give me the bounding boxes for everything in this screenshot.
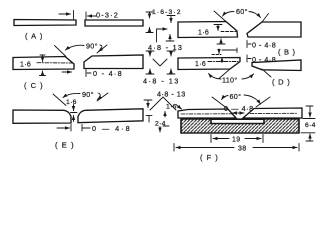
svg-text:60°: 60° xyxy=(236,7,248,16)
backing thickness dim 6.4 xyxy=(301,106,315,141)
joint C root dim xyxy=(40,55,46,76)
svg-text:90°: 90° xyxy=(82,90,94,99)
joint B right plate xyxy=(247,22,301,37)
joint E groove extension lines xyxy=(53,94,66,106)
svg-text:( D ): ( D ) xyxy=(272,78,291,87)
joint F left plate centerline xyxy=(181,113,233,115)
joint E gap ticks xyxy=(71,125,90,132)
joint D right plate xyxy=(252,60,301,71)
backing length dim 38 xyxy=(174,144,299,152)
leader for 1.6 F xyxy=(176,105,182,110)
svg-text:0 - 4·8: 0 - 4·8 xyxy=(252,41,276,50)
svg-text:1·6: 1·6 xyxy=(195,61,206,68)
joint A gap dimension 0-3.2 xyxy=(86,12,96,20)
joint E gap arrow left xyxy=(57,127,70,129)
joint C right plate xyxy=(84,55,143,69)
joint D root dim xyxy=(212,48,237,63)
leader 4.8-13 to B plate xyxy=(157,16,176,43)
svg-text:1·6: 1·6 xyxy=(166,104,177,111)
joint F backing strip xyxy=(181,119,299,133)
svg-text:( F ): ( F ) xyxy=(200,153,219,162)
joint B groove extension lines xyxy=(214,11,226,22)
svg-text:0 — 4·8: 0 — 4·8 xyxy=(224,104,254,113)
svg-text:( E ): ( E ) xyxy=(55,141,75,150)
svg-text:1·6-3·2: 1·6-3·2 xyxy=(152,9,182,16)
svg-text:0-3·2: 0-3·2 xyxy=(96,11,119,20)
dim 2.4 xyxy=(160,112,169,133)
svg-text:0 - 4·8: 0 - 4·8 xyxy=(93,69,123,78)
joint D gap dim 0-4.8 xyxy=(247,55,251,62)
svg-text:0 — 4·8: 0 — 4·8 xyxy=(92,124,132,133)
svg-text:0 - 4·8: 0 - 4·8 xyxy=(252,55,276,64)
joint C gap dim 0-4.8 xyxy=(86,70,91,77)
thickness dims E and F with caret leader xyxy=(144,97,176,122)
svg-text:4·8 - 13: 4·8 - 13 xyxy=(157,90,186,99)
joint F right plate xyxy=(243,108,302,118)
joint F right plate centerline xyxy=(250,112,297,114)
joint E right plate xyxy=(78,109,143,123)
joint F groove extension lines xyxy=(212,97,228,109)
svg-text:( B ): ( B ) xyxy=(278,48,296,57)
joint B root face dim 1.6 xyxy=(214,25,225,45)
svg-text:38: 38 xyxy=(238,146,246,153)
joint C gap arrow left xyxy=(62,71,72,73)
joint E root dim xyxy=(71,105,78,122)
joint F gap dim 0-4.8 xyxy=(233,112,245,114)
joint C centerline dashed xyxy=(37,62,72,64)
svg-text:( A ): ( A ) xyxy=(25,32,43,41)
svg-text:( C ): ( C ) xyxy=(24,81,44,90)
svg-text:4·8 - 13: 4·8 - 13 xyxy=(143,77,180,86)
svg-text:90°: 90° xyxy=(86,42,98,51)
joint D centerline dashed xyxy=(208,61,238,63)
svg-text:6·4: 6·4 xyxy=(305,122,316,129)
joint E left plate xyxy=(13,110,71,123)
svg-text:110°: 110° xyxy=(222,76,238,85)
svg-text:1·6: 1·6 xyxy=(198,30,209,37)
thickness dimension 1.6-3.2 xyxy=(146,12,153,33)
joint A arrow to left plate edge xyxy=(59,11,74,20)
joint B gap dim 0-4.8 xyxy=(247,41,251,48)
svg-text:2·4: 2·4 xyxy=(155,121,166,128)
svg-text:1·6: 1·6 xyxy=(66,99,77,106)
svg-text:19: 19 xyxy=(232,137,240,144)
joint F left plate xyxy=(178,109,236,118)
joint B root face dashed line xyxy=(221,31,236,33)
joint B left plate xyxy=(178,22,238,38)
svg-text:1·6: 1·6 xyxy=(20,62,31,69)
joint D groove extension lines xyxy=(219,69,230,79)
joint C left plate xyxy=(13,57,74,70)
backing groove width dim 19 xyxy=(211,135,263,143)
joint A left plate xyxy=(14,20,76,26)
thickness dims C and D with V leader xyxy=(146,51,175,74)
joint D left plate xyxy=(178,58,240,70)
joint A right plate xyxy=(85,20,143,26)
svg-text:60°: 60° xyxy=(230,92,242,101)
joint C groove extension lines xyxy=(55,46,67,57)
